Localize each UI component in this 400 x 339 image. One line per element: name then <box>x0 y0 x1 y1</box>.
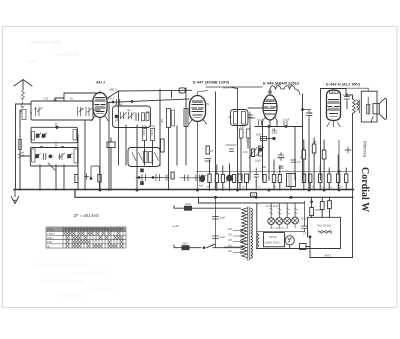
svg-text:NTO B: NTO B <box>315 209 323 212</box>
svg-text:Minerva: Minerva <box>363 141 368 158</box>
svg-text:300: 300 <box>160 119 163 124</box>
svg-text:0,5A: 0,5A <box>185 202 191 206</box>
svg-text:0,1μF: 0,1μF <box>248 116 256 120</box>
svg-text:E 444 (ABH8 125U): E 444 (ABH8 125U) <box>263 81 299 86</box>
svg-text:Pot 25 kΩ: Pot 25 kΩ <box>318 224 332 228</box>
svg-text:10μ 4B: 10μ 4B <box>277 157 285 160</box>
svg-text:6B: 6B <box>313 141 316 144</box>
svg-text:Cordial W: Cordial W <box>359 167 370 212</box>
svg-text:770: 770 <box>251 195 256 198</box>
svg-text:M-Bd: M-Bd <box>47 238 53 240</box>
svg-text:a+W: a+W <box>173 224 179 228</box>
svg-text:50 W: 50 W <box>270 235 277 239</box>
svg-text:DEHA: DEHA <box>223 86 231 90</box>
svg-text:AM 1: AM 1 <box>325 254 332 258</box>
svg-text:vn mwv nvm: vn mwv nvm <box>90 286 115 291</box>
svg-text:4B: 4B <box>300 157 303 160</box>
svg-text:ZF = 483 kHz: ZF = 483 kHz <box>73 213 100 218</box>
svg-text:mvn wnv mmvn nvm wmv: mvn wnv mmvn nvm wmv <box>35 262 87 267</box>
svg-text:0,1μF: 0,1μF <box>283 119 290 122</box>
svg-text:4μ: 4μ <box>36 132 39 136</box>
svg-text:4μ5: 4μ5 <box>199 185 204 188</box>
svg-text:AH 1: AH 1 <box>95 80 106 85</box>
svg-text:μF: μF <box>115 118 119 122</box>
svg-text:( MGN 4014 ): ( MGN 4014 ) <box>265 241 281 245</box>
svg-text:nvv wvm mnv vnm: nvv wvm mnv vnm <box>70 270 107 275</box>
svg-text:200: 200 <box>276 84 281 88</box>
svg-text:42 A: 42 A <box>301 218 306 221</box>
svg-text:1M: 1M <box>273 187 276 189</box>
svg-text:1μF: 1μF <box>343 93 348 97</box>
svg-text:0,15: 0,15 <box>240 126 245 129</box>
svg-text:fein gelb gelb rot: fein gelb gelb rot <box>271 227 288 230</box>
svg-text:1 2 3 4 5 6 7 8 9 10 11 12 13: 1 2 3 4 5 6 7 8 9 10 11 12 13 14 15 16 1… <box>64 229 110 231</box>
svg-text:0,1μF: 0,1μF <box>257 119 264 122</box>
svg-text:4μF: 4μF <box>308 112 313 115</box>
svg-text:0,15: 0,15 <box>243 151 248 154</box>
svg-text:wvm nvvm: wvm nvvm <box>55 52 79 58</box>
svg-text:MB V: MB V <box>110 88 117 92</box>
svg-text:1000: 1000 <box>142 130 145 136</box>
svg-text:DEHA: DEHA <box>330 92 337 95</box>
svg-text:MV: MV <box>205 102 210 106</box>
svg-text:1000: 1000 <box>150 130 153 136</box>
svg-text:4μ: 4μ <box>228 115 232 119</box>
svg-text:49,5: 49,5 <box>246 140 251 143</box>
svg-text:600: 600 <box>288 84 293 88</box>
svg-text:42 42 42 42: 42 42 42 42 <box>266 205 279 208</box>
svg-text:3·30: 3·30 <box>43 97 49 101</box>
svg-text:0,1μF: 0,1μF <box>115 103 123 107</box>
svg-text:nnvwmv mmm: nnvwmv mmm <box>30 40 62 46</box>
svg-text:mv wnm vn: mv wnm vn <box>60 293 83 298</box>
svg-text:27 Ω: 27 Ω <box>303 232 310 236</box>
svg-text:Δ1kΩ: Δ1kΩ <box>255 160 261 163</box>
svg-text:E 443 H (AL2 95V): E 443 H (AL2 95V) <box>326 82 361 87</box>
svg-text:1μF: 1μF <box>220 235 225 239</box>
svg-text:AF 2: AF 2 <box>108 97 115 101</box>
svg-text:wm nvvm vwn mvv wn: wm nvvm vwn mvv wn <box>40 278 85 283</box>
svg-text:4B: 4B <box>263 166 266 169</box>
svg-text:SUB: SUB <box>256 134 261 137</box>
svg-text:L-Band: L-Band <box>47 234 55 236</box>
svg-text:vwn: vwn <box>28 59 37 65</box>
svg-text:K-Bd: K-Bd <box>47 242 53 244</box>
svg-text:25A: 25A <box>182 242 187 246</box>
svg-text:1μF: 1μF <box>220 216 225 220</box>
svg-text:4μ: 4μ <box>127 108 131 112</box>
svg-text:Wellen: Wellen <box>47 230 55 232</box>
svg-text:E 447 (AFMB 125V): E 447 (AFMB 125V) <box>193 80 230 85</box>
svg-text:4F: 4F <box>146 110 150 114</box>
